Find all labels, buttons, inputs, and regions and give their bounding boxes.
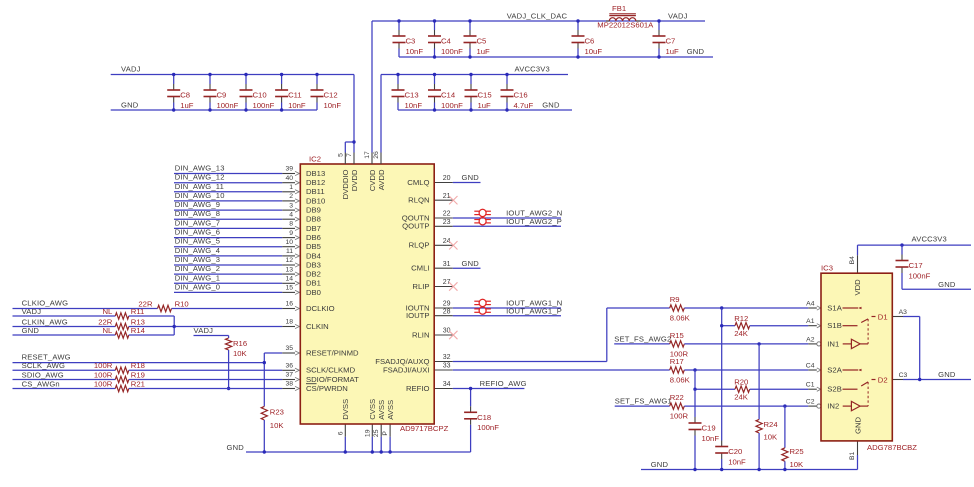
svg-text:DIN_AWG_10: DIN_AWG_10 bbox=[175, 191, 225, 200]
svg-text:IN1: IN1 bbox=[827, 339, 839, 348]
svg-text:10K: 10K bbox=[270, 421, 285, 430]
svg-text:GND: GND bbox=[227, 443, 245, 452]
svg-text:DB8: DB8 bbox=[306, 215, 321, 224]
svg-text:100nF: 100nF bbox=[441, 47, 463, 56]
svg-text:100nF: 100nF bbox=[477, 423, 499, 432]
svg-text:C1: C1 bbox=[806, 382, 815, 389]
svg-text:GND: GND bbox=[938, 280, 956, 289]
svg-text:100nF: 100nF bbox=[253, 101, 275, 110]
svg-text:DIN_AWG_6: DIN_AWG_6 bbox=[175, 228, 220, 237]
svg-text:DB1: DB1 bbox=[306, 279, 321, 288]
svg-text:DB12: DB12 bbox=[306, 178, 325, 187]
svg-text:SDIO/FORMAT: SDIO/FORMAT bbox=[306, 375, 359, 384]
svg-text:DIN_AWG_13: DIN_AWG_13 bbox=[175, 164, 225, 173]
svg-text:1uF: 1uF bbox=[477, 47, 491, 56]
svg-text:R12: R12 bbox=[734, 314, 748, 323]
svg-text:VADJ: VADJ bbox=[121, 65, 141, 74]
svg-text:28: 28 bbox=[443, 308, 451, 315]
svg-text:C16: C16 bbox=[514, 91, 528, 100]
svg-text:IN2: IN2 bbox=[827, 402, 839, 411]
svg-text:32: 32 bbox=[443, 354, 451, 361]
svg-text:9: 9 bbox=[289, 230, 293, 237]
svg-text:100R: 100R bbox=[670, 412, 689, 421]
svg-text:DB11: DB11 bbox=[306, 187, 325, 196]
svg-text:NL: NL bbox=[102, 307, 113, 316]
svg-text:6: 6 bbox=[337, 431, 344, 435]
svg-text:35: 35 bbox=[285, 345, 293, 352]
svg-text:AVSS: AVSS bbox=[377, 400, 386, 420]
svg-text:R18: R18 bbox=[131, 361, 145, 370]
svg-text:D1: D1 bbox=[878, 312, 888, 321]
svg-text:38: 38 bbox=[285, 381, 293, 388]
svg-text:R25: R25 bbox=[790, 447, 804, 456]
svg-text:DIN_AWG_12: DIN_AWG_12 bbox=[175, 173, 225, 182]
svg-text:RLQN: RLQN bbox=[408, 196, 429, 205]
svg-text:VDD: VDD bbox=[853, 279, 862, 296]
svg-text:GND: GND bbox=[462, 259, 480, 268]
svg-text:100nF: 100nF bbox=[217, 101, 239, 110]
svg-text:AVDD: AVDD bbox=[377, 169, 386, 190]
svg-text:FSADJI/AUXI: FSADJI/AUXI bbox=[383, 365, 430, 374]
svg-text:R24: R24 bbox=[764, 420, 779, 429]
svg-text:1: 1 bbox=[289, 184, 293, 191]
svg-text:D2: D2 bbox=[878, 375, 888, 384]
svg-text:AVSS: AVSS bbox=[386, 400, 395, 420]
svg-text:DIN_AWG_9: DIN_AWG_9 bbox=[175, 200, 220, 209]
svg-text:20: 20 bbox=[443, 175, 451, 182]
svg-text:RLIP: RLIP bbox=[412, 282, 429, 291]
svg-text:10nF: 10nF bbox=[405, 101, 423, 110]
svg-text:P: P bbox=[382, 431, 389, 436]
svg-text:IOUTP: IOUTP bbox=[406, 311, 430, 320]
svg-text:S1A: S1A bbox=[827, 303, 842, 312]
svg-text:NL: NL bbox=[102, 326, 113, 335]
svg-text:S1B: S1B bbox=[827, 321, 842, 330]
svg-text:R9: R9 bbox=[670, 295, 680, 304]
svg-text:C2: C2 bbox=[806, 399, 815, 406]
svg-text:R14: R14 bbox=[131, 326, 146, 335]
svg-text:GND: GND bbox=[651, 460, 669, 469]
svg-text:GND: GND bbox=[542, 100, 560, 109]
svg-text:25: 25 bbox=[373, 429, 380, 437]
svg-text:FB1: FB1 bbox=[612, 4, 626, 13]
svg-text:14: 14 bbox=[285, 276, 293, 283]
svg-text:C7: C7 bbox=[666, 37, 676, 46]
svg-text:CS/PWRDN: CS/PWRDN bbox=[306, 384, 348, 393]
svg-text:18: 18 bbox=[285, 319, 293, 326]
svg-text:13: 13 bbox=[285, 266, 293, 273]
svg-text:A1: A1 bbox=[806, 318, 815, 325]
svg-text:GND: GND bbox=[687, 47, 705, 56]
svg-text:7: 7 bbox=[346, 153, 353, 157]
svg-text:DB4: DB4 bbox=[306, 251, 322, 260]
svg-text:11: 11 bbox=[286, 248, 293, 255]
svg-text:DIN_AWG_1: DIN_AWG_1 bbox=[175, 273, 220, 282]
svg-text:VADJ_CLK_DAC: VADJ_CLK_DAC bbox=[507, 12, 568, 21]
svg-text:CLKIN: CLKIN bbox=[306, 322, 329, 331]
svg-text:RLQP: RLQP bbox=[409, 241, 430, 250]
svg-text:CMLI: CMLI bbox=[411, 264, 429, 273]
svg-text:QOUTP: QOUTP bbox=[402, 222, 429, 231]
svg-text:5: 5 bbox=[337, 153, 344, 157]
svg-text:DIN_AWG_2: DIN_AWG_2 bbox=[175, 264, 220, 273]
svg-text:24K: 24K bbox=[734, 393, 749, 402]
svg-text:RESET/PINMD: RESET/PINMD bbox=[306, 348, 359, 357]
svg-text:CS_AWGn: CS_AWGn bbox=[22, 379, 60, 388]
svg-text:C8: C8 bbox=[180, 91, 190, 100]
svg-text:DB6: DB6 bbox=[306, 233, 321, 242]
svg-text:C19: C19 bbox=[702, 424, 716, 433]
svg-text:ADG787BCBZ: ADG787BCBZ bbox=[867, 443, 917, 452]
svg-text:S2B: S2B bbox=[827, 385, 842, 394]
svg-text:CVSS: CVSS bbox=[368, 399, 377, 420]
svg-text:C20: C20 bbox=[728, 447, 742, 456]
svg-text:8.06K: 8.06K bbox=[670, 313, 691, 322]
svg-text:26: 26 bbox=[373, 151, 380, 159]
svg-text:A4: A4 bbox=[806, 301, 815, 308]
svg-text:C6: C6 bbox=[585, 37, 595, 46]
svg-text:17: 17 bbox=[364, 151, 371, 159]
svg-text:10K: 10K bbox=[790, 460, 805, 469]
svg-text:A3: A3 bbox=[899, 309, 908, 316]
svg-text:100nF: 100nF bbox=[909, 271, 931, 280]
svg-text:AD9717BCPZ: AD9717BCPZ bbox=[400, 424, 449, 433]
svg-text:GND: GND bbox=[22, 326, 40, 335]
svg-text:36: 36 bbox=[285, 363, 293, 370]
svg-text:CVDD: CVDD bbox=[368, 169, 377, 191]
svg-text:8: 8 bbox=[289, 221, 293, 228]
svg-text:DVSS: DVSS bbox=[341, 399, 350, 420]
svg-text:GND: GND bbox=[853, 416, 862, 434]
svg-text:SCLK/CLKMD: SCLK/CLKMD bbox=[306, 366, 356, 375]
svg-text:12: 12 bbox=[285, 257, 293, 264]
svg-text:R19: R19 bbox=[131, 370, 145, 379]
svg-text:1uF: 1uF bbox=[666, 47, 680, 56]
svg-text:10K: 10K bbox=[764, 432, 779, 441]
svg-text:AVCC3V3: AVCC3V3 bbox=[912, 235, 947, 244]
svg-text:DIN_AWG_3: DIN_AWG_3 bbox=[175, 255, 220, 264]
svg-text:GND: GND bbox=[462, 173, 480, 182]
svg-text:29: 29 bbox=[443, 301, 451, 308]
svg-text:DB9: DB9 bbox=[306, 206, 321, 215]
svg-text:10nF: 10nF bbox=[702, 434, 720, 443]
svg-text:10nF: 10nF bbox=[728, 457, 746, 466]
svg-text:10nF: 10nF bbox=[406, 47, 424, 56]
svg-text:C11: C11 bbox=[288, 91, 302, 100]
svg-text:S2A: S2A bbox=[827, 365, 842, 374]
svg-text:IC2: IC2 bbox=[309, 155, 321, 164]
svg-text:R11: R11 bbox=[131, 307, 145, 316]
svg-text:4.7uF: 4.7uF bbox=[514, 101, 534, 110]
svg-text:39: 39 bbox=[285, 166, 293, 173]
svg-text:R10: R10 bbox=[175, 299, 189, 308]
svg-text:10K: 10K bbox=[233, 349, 248, 358]
svg-text:REFIO_AWG: REFIO_AWG bbox=[480, 379, 527, 388]
svg-text:DCLKIO: DCLKIO bbox=[306, 304, 335, 313]
svg-text:DIN_AWG_5: DIN_AWG_5 bbox=[175, 237, 220, 246]
svg-text:R21: R21 bbox=[131, 379, 145, 388]
svg-text:VADJ: VADJ bbox=[668, 12, 688, 21]
svg-text:19: 19 bbox=[364, 429, 371, 437]
svg-text:MP22012S601A: MP22012S601A bbox=[597, 21, 654, 30]
svg-text:DVDDIO: DVDDIO bbox=[341, 169, 350, 199]
svg-text:33: 33 bbox=[443, 363, 451, 370]
svg-text:34: 34 bbox=[443, 381, 451, 388]
svg-text:SET_FS_AWG2: SET_FS_AWG2 bbox=[614, 334, 671, 343]
svg-text:DB7: DB7 bbox=[306, 224, 321, 233]
svg-text:C5: C5 bbox=[477, 37, 487, 46]
svg-text:C18: C18 bbox=[477, 413, 491, 422]
svg-text:SET_FS_AWG1: SET_FS_AWG1 bbox=[615, 397, 672, 406]
svg-text:37: 37 bbox=[285, 372, 293, 379]
svg-text:C13: C13 bbox=[405, 91, 419, 100]
svg-text:100R: 100R bbox=[94, 361, 113, 370]
svg-text:100R: 100R bbox=[94, 379, 113, 388]
svg-text:R20: R20 bbox=[734, 378, 748, 387]
svg-text:23: 23 bbox=[443, 219, 451, 226]
svg-text:CMLQ: CMLQ bbox=[407, 178, 429, 187]
svg-text:GND: GND bbox=[938, 370, 956, 379]
svg-text:10: 10 bbox=[285, 239, 293, 246]
svg-text:8.06K: 8.06K bbox=[670, 375, 691, 384]
svg-text:DB5: DB5 bbox=[306, 242, 321, 251]
svg-text:DB13: DB13 bbox=[306, 169, 325, 178]
svg-text:DIN_AWG_0: DIN_AWG_0 bbox=[175, 282, 220, 291]
svg-text:1uF: 1uF bbox=[478, 101, 492, 110]
svg-text:16: 16 bbox=[285, 301, 293, 308]
svg-text:R15: R15 bbox=[670, 331, 684, 340]
svg-text:IOUT_AWG1_P: IOUT_AWG1_P bbox=[506, 306, 562, 315]
svg-text:VADJ: VADJ bbox=[22, 307, 42, 316]
svg-text:DIN_AWG_11: DIN_AWG_11 bbox=[175, 182, 224, 191]
svg-text:C3: C3 bbox=[406, 37, 416, 46]
svg-text:AVCC3V3: AVCC3V3 bbox=[515, 65, 550, 74]
svg-text:24K: 24K bbox=[734, 329, 749, 338]
svg-text:DB10: DB10 bbox=[306, 196, 325, 205]
svg-text:R16: R16 bbox=[233, 339, 247, 348]
svg-text:22: 22 bbox=[443, 211, 451, 218]
svg-text:3: 3 bbox=[289, 202, 293, 209]
svg-text:GND: GND bbox=[121, 100, 139, 109]
svg-text:C3: C3 bbox=[899, 372, 908, 379]
svg-text:C14: C14 bbox=[441, 91, 456, 100]
svg-text:IOUT_AWG2_P: IOUT_AWG2_P bbox=[506, 217, 562, 226]
svg-text:REFIO: REFIO bbox=[406, 384, 430, 393]
svg-text:C17: C17 bbox=[909, 261, 923, 270]
svg-text:1uF: 1uF bbox=[180, 101, 194, 110]
svg-text:DIN_AWG_8: DIN_AWG_8 bbox=[175, 209, 220, 218]
svg-text:15: 15 bbox=[285, 285, 293, 292]
svg-text:B1: B1 bbox=[849, 452, 856, 461]
svg-text:R22: R22 bbox=[670, 393, 684, 402]
svg-text:C9: C9 bbox=[217, 91, 227, 100]
svg-text:C4: C4 bbox=[441, 37, 452, 46]
svg-text:10uF: 10uF bbox=[585, 47, 603, 56]
svg-text:100nF: 100nF bbox=[441, 101, 463, 110]
svg-text:C15: C15 bbox=[478, 91, 492, 100]
svg-text:R23: R23 bbox=[270, 408, 284, 417]
svg-text:R17: R17 bbox=[670, 357, 684, 366]
svg-text:DIN_AWG_7: DIN_AWG_7 bbox=[175, 218, 220, 227]
svg-text:10nF: 10nF bbox=[324, 101, 342, 110]
svg-text:DB3: DB3 bbox=[306, 260, 321, 269]
svg-text:VADJ: VADJ bbox=[194, 326, 214, 335]
svg-text:DB0: DB0 bbox=[306, 288, 321, 297]
svg-text:DB2: DB2 bbox=[306, 270, 321, 279]
svg-text:A2: A2 bbox=[806, 336, 815, 343]
svg-text:DVDD: DVDD bbox=[350, 169, 359, 191]
svg-text:10nF: 10nF bbox=[288, 101, 306, 110]
svg-text:B4: B4 bbox=[849, 256, 856, 265]
svg-text:SCLK_AWG: SCLK_AWG bbox=[22, 361, 66, 370]
svg-text:RLIN: RLIN bbox=[412, 330, 430, 339]
svg-text:C12: C12 bbox=[324, 91, 338, 100]
svg-text:100R: 100R bbox=[94, 370, 113, 379]
svg-text:SDIO_AWG: SDIO_AWG bbox=[22, 370, 64, 379]
svg-text:C10: C10 bbox=[253, 91, 267, 100]
svg-text:40: 40 bbox=[285, 175, 293, 182]
svg-text:4: 4 bbox=[289, 211, 293, 218]
svg-text:DIN_AWG_4: DIN_AWG_4 bbox=[175, 246, 220, 255]
svg-text:2: 2 bbox=[289, 193, 293, 200]
svg-text:C4: C4 bbox=[806, 363, 815, 370]
svg-text:31: 31 bbox=[443, 261, 451, 268]
svg-text:IC3: IC3 bbox=[821, 264, 833, 273]
